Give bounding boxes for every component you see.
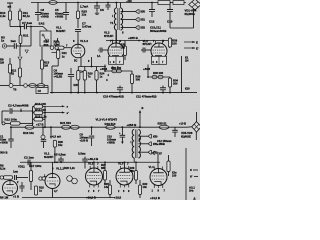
right margin arrows (184, 41, 195, 43)
bridge bottom wire (195, 132, 197, 140)
svg-text:+100 В: +100 В (80, 138, 89, 142)
diode VD2 (19, 47, 21, 56)
resistor R26 7к (83, 71, 86, 81)
terminal jack (41, 135, 45, 139)
svg-text:8,2к: 8,2к (0, 167, 6, 171)
wire C7b to VL2c grid (84, 164, 86, 169)
connector О' (152, 151, 155, 155)
svg-text:100: 100 (172, 173, 177, 177)
branch wire down at x31 (30, 27, 32, 47)
svg-text:1мк: 1мк (13, 169, 18, 173)
resistor R12 82 (18, 68, 21, 77)
svg-text:4,7: 4,7 (54, 190, 58, 193)
resistor R29 300 (130, 74, 133, 84)
rectifier bridge VD1-VD4 (189, 0, 201, 10)
svg-text:б: б (190, 168, 192, 172)
svg-text:1А: 1А (97, 54, 100, 58)
relay box K1 (36, 88, 48, 94)
svg-text:С8: С8 (100, 8, 104, 12)
wire T1 left winding to anode (115, 30, 117, 43)
inductor L1 (29, 84, 37, 88)
svg-text:+19,8: +19,8 (114, 196, 122, 200)
svg-text:SA2: SA2 (39, 22, 45, 26)
svg-text:300 В: 300 В (0, 151, 7, 155)
T2 secondary taps (138, 135, 148, 137)
connector К55 (148, 150, 151, 154)
svg-text:VL1.2: VL1.2 (80, 39, 88, 43)
rectifier bridge VD5-VD8 (192, 122, 202, 132)
svg-text:+450В: +450В (157, 142, 165, 146)
resistor R25 100 (77, 71, 80, 81)
svg-text:300: 300 (136, 77, 141, 81)
svg-text:+41,5В: +41,5В (54, 75, 63, 79)
electrolytic capacitor C10b (121, 127, 123, 135)
svg-text:Е: Е (196, 40, 198, 44)
svg-text:С2 4,7мкх400В: С2 4,7мкх400В (8, 104, 29, 108)
svg-text:Е': Е' (196, 46, 199, 50)
svg-text:С10 470мкх41В: С10 470мкх41В (103, 95, 124, 99)
svg-text:КЦ402Е: КЦ402Е (181, 134, 191, 138)
wire R11 down (19, 9, 21, 12)
capacitor C9 (107, 3, 109, 6)
screen resistor R39 100 (168, 38, 171, 47)
VL2a cathode pin box (109, 56, 124, 64)
svg-text:+14,2 В: +14,2 В (150, 196, 160, 200)
svg-text:+300В: +300В (0, 140, 8, 144)
left column verticals (32, 107, 34, 127)
cathode bypass capacitor C10 470мкх41В (117, 87, 123, 89)
svg-text:500мкх300В: 500мкх300В (150, 29, 166, 33)
svg-text:+1 В: +1 В (13, 194, 19, 198)
svg-text:+263 В: +263 В (127, 123, 138, 127)
resistor R11 (18, 11, 21, 20)
switch box SB1 on rail (173, 1, 184, 5)
left bus drop to main bus (47, 86, 49, 93)
resistor R10b 1к (34, 186, 37, 195)
svg-text:VD11: VD11 (18, 164, 25, 168)
svg-text:з': з' (67, 111, 69, 115)
T1 secondary tap wires (121, 11, 136, 13)
svg-text:С11 470мкх41В: С11 470мкх41В (136, 95, 157, 99)
svg-text:R21: R21 (23, 33, 29, 37)
svg-text:К50: К50 (141, 10, 146, 14)
svg-text:+265 В: +265 В (128, 36, 139, 40)
cathode capacitor C4b (20, 185, 25, 187)
svg-text:6Н23П: 6Н23П (56, 29, 65, 33)
VL2a anode to T1 (115, 30, 117, 43)
svg-text:С5 0,5мк: С5 0,5мк (54, 152, 66, 156)
output tube VL4 (150, 169, 167, 186)
VL1.2 cathode network (80, 57, 82, 66)
svg-text:10к: 10к (58, 143, 63, 147)
svg-text:R33 200: R33 200 (153, 71, 164, 75)
svg-text:К52: К52 (141, 26, 146, 30)
svg-text:100: 100 (121, 45, 126, 49)
connector К51 (136, 17, 139, 21)
svg-text:VL4: VL4 (149, 165, 155, 169)
output arrow з' (45, 112, 65, 114)
output arrow node (52, 52, 61, 54)
top supply rail wire (31, 2, 186, 4)
output transformer T2 (132, 130, 134, 158)
electrolytic capacitor C3 82мкн 300В (37, 3, 39, 13)
svg-text:100: 100 (172, 42, 177, 46)
inductor L2 (37, 84, 45, 88)
resistor R16 10к on bus (25, 125, 34, 129)
diode VD1a (25, 50, 28, 53)
svg-text:Д: Д (194, 197, 196, 200)
svg-text:б': б' (190, 174, 193, 178)
down arrow (50, 127, 52, 137)
feedback vertical (181, 56, 183, 93)
svg-text:+17 В: +17 В (36, 123, 44, 127)
screen resistor R30a 100 (124, 46, 127, 56)
cathode bypass capacitor C11 470мкх41В (160, 87, 166, 89)
VL2a grid capacitor (99, 48, 101, 53)
VL1.2 anode wire (77, 40, 79, 44)
electrolytic capacitor C4 (41, 139, 47, 141)
svg-text:С7 1мк: С7 1мк (22, 21, 33, 25)
resistor R23 12к (77, 3, 79, 12)
svg-text:82: 82 (11, 72, 15, 76)
connector К52 (136, 25, 139, 29)
svg-text:VL2: VL2 (88, 162, 94, 166)
terminal T8 (9, 84, 13, 88)
svg-text:~220: ~220 (126, 0, 132, 3)
svg-text:200: 200 (173, 81, 178, 85)
svg-text:1мк: 1мк (11, 39, 17, 43)
left ground bus (13, 85, 48, 87)
svg-text:0,5мк: 0,5мк (78, 152, 86, 156)
resistor R34 200 (168, 78, 171, 87)
svg-text:1М: 1М (44, 64, 49, 68)
resistor R21b 1к (57, 50, 60, 59)
svg-text:2Н: 2Н (185, 59, 188, 63)
svg-text:К51: К51 (141, 18, 146, 22)
svg-text:2,4к: 2,4к (0, 14, 6, 18)
fuse FU1 on rail (49, 1, 57, 5)
svg-text:1,7мА: 1,7мА (80, 4, 89, 8)
connector К50 (136, 9, 139, 13)
capacitor C8 (96, 3, 98, 7)
svg-text:R8 1М: R8 1М (0, 195, 9, 199)
switch SA2 contacts (42, 34, 44, 36)
wire bridge down (193, 9, 195, 28)
svg-text:С: С (106, 79, 108, 82)
svg-text:R12 100к: R12 100к (5, 118, 18, 122)
coupling capacitor C2 (2, 110, 9, 112)
resistor R24 1к (95, 71, 98, 81)
svg-text:13к: 13к (143, 185, 148, 189)
output arrow з (45, 105, 65, 107)
output transformer T1 (114, 8, 116, 30)
VL2b cathode pin box (152, 56, 167, 64)
connector К53 (148, 134, 151, 138)
svg-text:680: 680 (130, 169, 135, 173)
resistor R20 10к (53, 140, 56, 147)
svg-text:+30,8: +30,8 (143, 67, 151, 71)
svg-text:+300В: +300В (55, 15, 63, 19)
svg-text:6П14П: 6П14П (104, 34, 113, 38)
svg-text:2№: 2№ (189, 189, 194, 193)
wire jack to C6 (7, 45, 14, 47)
svg-text:12к: 12к (82, 13, 87, 17)
wire from left edge (0, 85, 9, 87)
svg-text:R25: R25 (74, 84, 79, 87)
junction tick (20, 109, 22, 112)
grid terminal 2 (39, 177, 42, 180)
paper background (0, 0, 200, 200)
connector К54 (148, 142, 151, 146)
electrolytic capacitor C5 82мкн 300В (65, 3, 67, 13)
svg-text:1Л: 1Л (38, 89, 41, 93)
main bus of bottom schematic (10, 126, 187, 128)
capacitor C13 (169, 3, 171, 10)
svg-text:600: 600 (44, 43, 49, 47)
svg-text:R21 510: R21 510 (60, 121, 71, 125)
svg-text:0,47мк: 0,47мк (82, 25, 92, 29)
svg-text:Т1: Т1 (110, 21, 114, 25)
resistor R13 1М (41, 47, 43, 60)
svg-text:82,1к: 82,1к (23, 14, 31, 18)
input terminal X3 (0, 176, 3, 179)
VL2b grid capacitor (142, 48, 144, 53)
svg-text:С2 1мк: С2 1мк (24, 156, 34, 160)
grid terminal and resistor R22 (50, 46, 54, 50)
svg-text:+39,4 В: +39,4 В (88, 157, 98, 161)
svg-text:вЗ: вЗ (8, 5, 12, 9)
svg-text:6Н23П: 6Н23П (44, 155, 53, 159)
svg-text:С12: С12 (149, 20, 155, 24)
right vertical rail (185, 148, 187, 200)
main ground bus of top schematic (50, 92, 197, 94)
svg-text:1М: 1М (0, 61, 5, 65)
fuse box FU2 on rail (158, 1, 170, 5)
anode supply wire bottom (20, 161, 160, 163)
svg-text:Т8: Т8 (13, 88, 17, 92)
resistor R36 (167, 161, 170, 172)
svg-text:VL2-VL4 6П14П: VL2-VL4 6П14П (96, 118, 117, 122)
svg-text:К10: К10 (185, 86, 190, 90)
vertical drops from bus left (10, 127, 12, 139)
ground below C8 (96, 8, 98, 11)
bottom cathode bus (22, 197, 115, 199)
svg-text:6П14П: 6П14П (143, 42, 152, 46)
svg-text:R16 10к: R16 10к (23, 131, 34, 135)
svg-text:VL3: VL3 (118, 162, 124, 166)
svg-text:4,3 мА: 4,3 мА (52, 134, 62, 138)
svg-text:С13: С13 (167, 20, 173, 24)
svg-text:К50: К50 (153, 134, 158, 138)
wire R10 down to node (9, 20, 11, 27)
capacitor C12 (151, 3, 153, 10)
resistor R10 (8, 11, 11, 20)
svg-text:5С: 5С (74, 59, 77, 63)
antenna terminal X1 (7, 2, 13, 4)
svg-text:+350В: +350В (107, 141, 115, 145)
cathode wire VL1.2b (52, 189, 54, 198)
feed wire from top with arrow (139, 111, 141, 127)
jack circle (24, 84, 28, 88)
resistor R9 (4, 176, 13, 179)
svg-text:+300В: +300В (41, 15, 49, 19)
svg-text:R26 1,2к: R26 1,2к (64, 166, 75, 170)
resistor R19b (42, 177, 50, 180)
bridge top wire (196, 112, 198, 122)
svg-text:+10 В: +10 В (179, 121, 186, 125)
tube VL1.2a (3, 181, 18, 196)
svg-text:В: В (142, 106, 144, 110)
